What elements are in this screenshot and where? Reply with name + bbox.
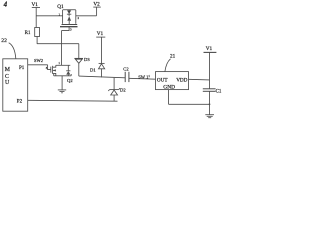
svg-text:M: M [5,67,10,73]
svg-text:3: 3 [70,27,72,31]
svg-text:GND: GND [163,85,175,91]
svg-text:21: 21 [170,54,176,60]
svg-text:U: U [5,80,10,86]
svg-text:C2: C2 [123,67,129,72]
svg-text:VDD: VDD [176,77,187,83]
svg-text:2: 2 [78,16,80,20]
svg-text:Q1: Q1 [57,4,64,10]
svg-text:OUT: OUT [157,77,168,83]
svg-text:22: 22 [1,38,7,44]
svg-text:V1: V1 [97,31,104,37]
svg-text:R1: R1 [25,31,31,36]
svg-text:1: 1 [58,61,60,65]
svg-text:D1: D1 [90,67,96,72]
svg-text:V2: V2 [93,2,100,8]
svg-text:4: 4 [3,1,8,9]
svg-text:C1: C1 [216,90,222,95]
svg-text:P1: P1 [19,66,25,71]
svg-text:D2: D2 [120,88,126,93]
svg-text:1: 1 [148,74,150,78]
svg-text:SW2: SW2 [34,58,43,63]
svg-text:C: C [5,74,9,80]
svg-text:P2: P2 [17,99,23,104]
svg-text:Q2: Q2 [67,78,73,83]
svg-text:SW 1: SW 1 [138,75,148,80]
svg-text:D3: D3 [84,57,90,62]
svg-text:V1: V1 [32,2,39,8]
svg-text:V1: V1 [206,46,213,52]
